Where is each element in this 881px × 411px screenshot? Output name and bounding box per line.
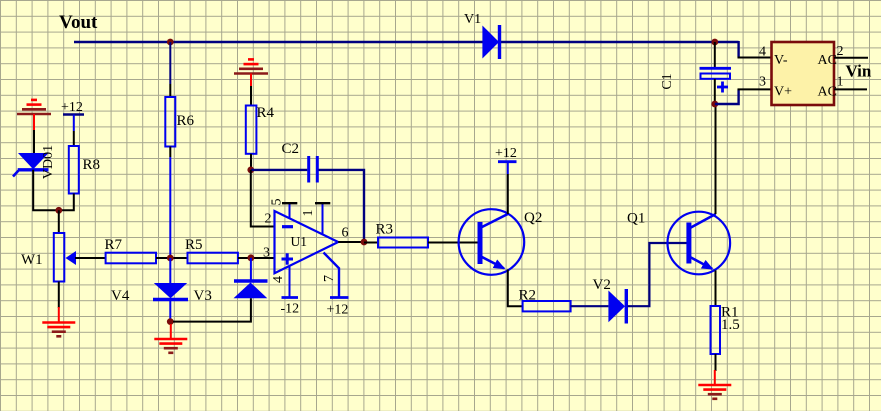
svg-text:V4: V4: [111, 288, 130, 304]
svg-text:V2: V2: [593, 277, 611, 293]
Q2 emitter with arrow: [481, 257, 504, 269]
Q2 collector: [481, 214, 508, 228]
svg-text:R4: R4: [257, 105, 275, 121]
transistor Q2 circle: [459, 209, 525, 275]
ground below V4: [170, 324, 172, 339]
wire R1 to ground: [715, 354, 717, 371]
svg-text:C2: C2: [282, 141, 300, 157]
wire rail corner down to pin 4 of AC box: [737, 41, 739, 58]
wire W1 wiper to R7: [75, 257, 106, 259]
svg-text:R3: R3: [376, 222, 394, 238]
wire R2 to V2: [571, 305, 609, 307]
svg-text:Q2: Q2: [524, 210, 542, 226]
svg-text:AC: AC: [818, 53, 837, 68]
diode V4: [154, 283, 187, 298]
Q1 base bar: [686, 223, 691, 264]
C1 plus sign: [717, 86, 728, 89]
wire rail junction down to C1: [714, 42, 716, 67]
svg-text:Vin: Vin: [846, 62, 872, 81]
wire V2 to Q1 base: [628, 243, 689, 306]
wire Q1 collector up to C1 node: [715, 104, 717, 214]
wire junction to V+ pin: [715, 89, 739, 104]
svg-text:VD01: VD01: [41, 145, 56, 179]
wire R5 to pin3 junction: [238, 257, 275, 259]
junction output node: [361, 239, 368, 246]
wire R7 to junction: [156, 257, 188, 259]
svg-text:+12: +12: [327, 303, 349, 318]
svg-text:W1: W1: [21, 252, 43, 268]
svg-text:4: 4: [759, 45, 766, 60]
diode V2: [608, 291, 625, 323]
svg-text:V3: V3: [194, 288, 212, 304]
wire junction to R3: [364, 242, 378, 244]
svg-text:+12: +12: [61, 100, 83, 115]
ground below R1: [714, 370, 716, 385]
svg-text:AC: AC: [818, 85, 837, 100]
wire W1 bottom to ground: [58, 282, 60, 309]
svg-text:7: 7: [322, 275, 337, 282]
wire Q1 emitter down to R1: [715, 270, 717, 306]
resistor R5: [188, 253, 238, 264]
wire R3 to Q2 base: [428, 242, 478, 244]
svg-text:4: 4: [271, 276, 286, 283]
svg-text:R6: R6: [177, 113, 195, 129]
wire earth to R4: [250, 86, 252, 106]
ground below W1: [58, 307, 60, 323]
transistor Q1 circle: [668, 212, 731, 275]
junction at op-amp pin 3 / V3: [248, 254, 255, 261]
wire Q2 collector up: [507, 174, 509, 214]
wire C2 right plate to output node: [319, 170, 365, 242]
resistor R4: [246, 106, 257, 154]
capacitor C1 (polarized): [700, 67, 732, 70]
AC source box: [772, 42, 835, 105]
svg-text:+12: +12: [495, 146, 517, 161]
junction below V4: [167, 318, 174, 325]
pin 7 power: [324, 253, 340, 298]
wire pin3 junction down to V3: [250, 258, 252, 281]
wire R4 down to C2 junction: [250, 154, 252, 170]
svg-text:-12: -12: [281, 302, 300, 317]
wire V3 down, left to V4 junction: [173, 298, 251, 321]
Q2 base bar: [478, 222, 483, 264]
op-amp U1 triangle: [275, 211, 339, 273]
diode V1: [482, 26, 499, 59]
wire C1 bottom plate to junction: [714, 79, 716, 104]
power earth above VD01: [31, 99, 37, 102]
wire +12 stem to R8: [73, 131, 75, 146]
wire pin6 to output junction: [338, 241, 364, 243]
junction on Vout rail at R6: [167, 39, 174, 46]
svg-text:R7: R7: [105, 237, 123, 253]
svg-text:R8: R8: [83, 157, 101, 173]
svg-text:1.5: 1.5: [721, 317, 740, 333]
wire V4 to bottom junction: [169, 300, 171, 322]
wire AC pin 2: [834, 57, 868, 59]
Q1 emitter with arrow: [690, 257, 712, 269]
wire VD01 down and right to W1 junction: [33, 170, 59, 211]
resistor R7: [106, 253, 156, 264]
svg-text:V-: V-: [774, 53, 788, 68]
wire earth to VD01: [33, 130, 35, 153]
svg-text:5: 5: [270, 199, 285, 206]
svg-text:3: 3: [263, 246, 270, 261]
wire Q2 emitter down to R2: [508, 270, 523, 307]
wire junction to C2 left plate: [251, 169, 307, 171]
svg-text:C1: C1: [660, 73, 675, 89]
svg-text:2: 2: [265, 212, 272, 227]
U1 minus input mark: [282, 225, 293, 228]
junction R6/R7/R5/V4: [167, 255, 174, 262]
potentiometer W1: [54, 233, 65, 282]
pin 4 power: [289, 266, 291, 298]
wire from rail down to R6: [169, 42, 171, 84]
svg-text:R5: R5: [185, 237, 203, 253]
svg-text:V+: V+: [774, 85, 792, 100]
W1 wiper arrow: [66, 251, 77, 265]
svg-text:V1: V1: [464, 12, 481, 27]
resistor R3: [378, 238, 428, 248]
wire Vout horizontal rail: [74, 41, 739, 43]
wire AC pin 1: [834, 88, 867, 90]
svg-text:1: 1: [837, 75, 844, 90]
junction on Vout rail at C1: [711, 39, 718, 46]
svg-text:Q1: Q1: [627, 211, 645, 227]
pin 5 stub: [289, 204, 291, 219]
svg-text:U1: U1: [291, 234, 308, 249]
wire junction down to V4: [169, 258, 171, 283]
pin 1 stub: [322, 204, 324, 235]
resistor R2: [523, 301, 571, 311]
svg-text:6: 6: [342, 226, 349, 241]
resistor R1: [711, 306, 721, 354]
power earth above R4: [248, 58, 254, 61]
zener diode VD01: [18, 153, 49, 169]
capacitor C2: [307, 156, 310, 183]
resistor R8: [69, 146, 79, 194]
diode V3: [234, 279, 268, 282]
junction above W1: [55, 207, 62, 214]
U1 plus input mark: [282, 258, 294, 261]
wire R6 to junction (blue): [169, 147, 171, 158]
svg-text:1: 1: [301, 210, 316, 217]
junction R4/C2/pin2: [247, 167, 254, 174]
wire R8 down to W1 junction: [59, 194, 74, 211]
wire black to V- pin: [738, 57, 773, 59]
svg-text:R2: R2: [519, 288, 537, 304]
wire pin2 path: [251, 170, 275, 227]
resistor R6: [165, 97, 175, 147]
svg-text:3: 3: [759, 75, 766, 90]
junction below C1: [711, 101, 718, 108]
Q1 collector: [690, 214, 716, 228]
svg-text:Vout: Vout: [59, 12, 98, 33]
wire junction down to W1: [58, 210, 60, 233]
